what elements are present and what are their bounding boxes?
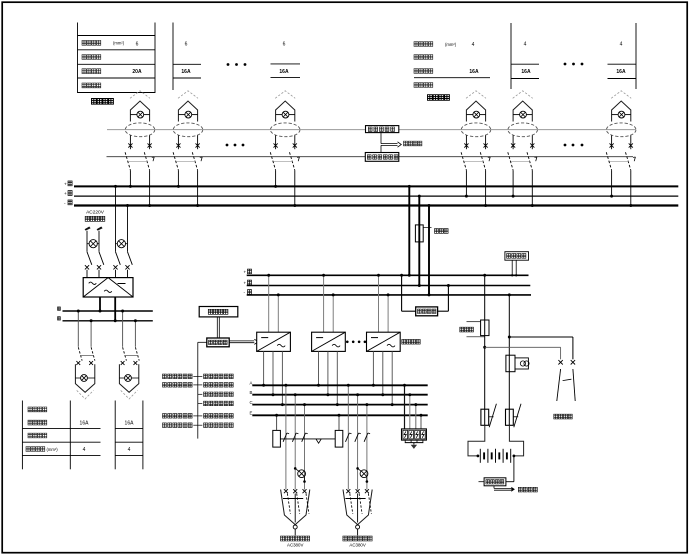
table T2 column 2 cell (511, 23, 539, 89)
wire: detector link (380, 133, 382, 153)
contact X marks generator (558, 360, 575, 364)
svg-text:20A: 20A (132, 69, 142, 75)
svg-text:16A: 16A (469, 69, 479, 75)
contact X marks inverter input (85, 265, 130, 269)
wire: AC output line 1 (58, 307, 153, 311)
feeder F7 (AC outgoing) (75, 310, 95, 399)
table T2 (right feeder group data) (414, 42, 490, 88)
svg-text:A: A (250, 381, 253, 386)
svg-text:AC220V: AC220V (86, 209, 105, 215)
contact X marks branch 2 (346, 489, 369, 493)
label: generator set (554, 414, 572, 419)
wire: trip sense line (107, 156, 634, 158)
wire: interlock sense line (gray) (107, 129, 636, 131)
svg-text:16A: 16A (181, 69, 191, 75)
wire: battery frame right (509, 425, 523, 457)
lamp HL1 (AC input) (87, 240, 99, 248)
contactor/transformer T1 neutral (273, 414, 281, 447)
feeder F3 (he-mu outgoing) (270, 91, 300, 207)
breaker QF5 generator (557, 369, 575, 401)
ellipsis dots table T2 (564, 63, 584, 66)
fuse FU2 (AC input) (97, 227, 103, 231)
bus mid (control bus) (64, 191, 678, 198)
shunt RS (battery + lead) (481, 274, 489, 426)
svg-text:E: E (250, 411, 253, 416)
box: monitor module U5 (199, 307, 238, 317)
svg-text:16A: 16A (616, 69, 626, 75)
feeder F4 (kong-mu outgoing) (461, 91, 491, 207)
bus phase A (250, 381, 428, 386)
feeder F6 (kong-mu outgoing) (606, 91, 636, 207)
box: AC surge detector (365, 153, 399, 162)
wire: AC input pair (87, 231, 99, 252)
rectifier module U3 (312, 274, 346, 406)
wire: monitor link (double) (217, 317, 219, 338)
svg-text:4: 4 (524, 41, 527, 47)
fuse FU5 with wire: control bus to DC link (415, 195, 448, 287)
wire: DC link line +M (244, 269, 529, 275)
table T1 (left feeder group data) (78, 23, 156, 94)
label: AC220V AC input (85, 209, 105, 221)
switch blades QS1-QS4 (87, 252, 132, 265)
bus phase C (250, 400, 428, 405)
wire: generator lead 1 (509, 337, 573, 359)
svg-text:6: 6 (185, 41, 188, 47)
label: shunt / CT (460, 322, 485, 337)
ellipsis dots left feeder row (226, 144, 245, 147)
rectifier module U2 (257, 274, 291, 406)
lamp HL branch 2 (356, 467, 368, 483)
arrow: sampling to rectifier (229, 339, 258, 344)
ellipsis dots table T1 (227, 63, 247, 66)
labels: sampling signals left (163, 374, 193, 427)
svg-text:+: + (244, 280, 247, 285)
signal tick marks (193, 376, 202, 425)
label: he-mu feeder group (bold) (92, 99, 114, 105)
svg-text:+: + (64, 183, 67, 188)
lamp HL2 (DC side) (116, 240, 128, 248)
label: AC input 2 (343, 536, 372, 548)
svg-text:C: C (250, 400, 253, 405)
label: kong-mu feeder group (bold) (428, 95, 450, 101)
ellipsis dots right feeder row (564, 144, 584, 147)
arrow: battery data out (494, 486, 537, 492)
feeder F1 (he-mu outgoing) (125, 91, 155, 207)
input arrow branch 1 (281, 490, 310, 536)
surge protector FV1-FV4 (402, 384, 427, 443)
arrow: data to monitor (381, 141, 422, 147)
box: transmission device U8 (505, 252, 529, 277)
inverter U1 (AC/DC transfer) (83, 278, 133, 297)
bus phase E (250, 411, 428, 416)
svg-text:+: + (64, 192, 67, 197)
svg-text:-: - (64, 202, 66, 207)
svg-text:AC380V: AC380V (349, 543, 365, 548)
table T2 column n cell (608, 23, 637, 89)
svg-text:16A: 16A (521, 69, 531, 75)
contactor/transformer T2 neutral (335, 414, 343, 447)
svg-text:(mm²): (mm²) (445, 42, 457, 47)
wire: neutral link with earth mark (280, 439, 335, 443)
wires: branch 1 phase drops (284, 384, 306, 490)
input arrow branch 2 (343, 490, 372, 536)
svg-text:B: B (250, 390, 253, 395)
label: rectifier module (402, 339, 420, 344)
svg-text:4: 4 (620, 41, 623, 47)
svg-text:6: 6 (136, 41, 139, 47)
label: AC input 1 (281, 536, 310, 548)
svg-text:(mm²): (mm²) (113, 41, 125, 46)
wire: bus +M to DC link (408, 185, 411, 277)
wire: DC link line mid (244, 280, 531, 285)
svg-text:16A: 16A (80, 421, 90, 427)
box: battery sampling U9 (479, 456, 514, 486)
svg-text:4: 4 (128, 447, 131, 453)
wire: DC link line -M (244, 290, 532, 295)
svg-text:AC380V: AC380V (287, 543, 303, 548)
ground symbol SPD (405, 443, 424, 449)
rectifier module U4 (367, 274, 401, 406)
svg-text:16A: 16A (125, 421, 135, 427)
ellipsis dots rectifier row (346, 341, 366, 344)
wire: DC tap from bus +M (114, 185, 117, 252)
feeder F8 (AC outgoing) (119, 310, 139, 399)
labels: sampling signals right (204, 374, 234, 427)
wire: AC output line 2 (58, 317, 153, 321)
battery GB cells (480, 449, 510, 463)
wire: battery frame left (468, 425, 485, 457)
lamp HL branch 1 (294, 467, 306, 483)
bus phase B (250, 390, 428, 395)
wires: branch 2 phase drops (347, 384, 369, 490)
wire: DC tap from bus -M (126, 204, 129, 252)
svg-text:4: 4 (472, 42, 475, 48)
fuse FU6 (battery +) (481, 404, 497, 427)
wire: bus -M to DC link (428, 204, 431, 296)
svg-text:4: 4 (83, 447, 86, 453)
fuse FU7 (battery -) (506, 404, 522, 427)
feeder F5 (kong-mu outgoing) (508, 91, 538, 207)
box: input sampling U6 (207, 338, 229, 347)
table T3 (AC feeder data) (22, 401, 142, 470)
breaker QF1 contacts (283, 433, 308, 442)
wire: inverter outputs (99, 297, 117, 322)
svg-text:+: + (244, 269, 247, 274)
box: voltage dropping device U7 (400, 274, 450, 316)
bus +M (closing bus) (64, 181, 678, 188)
breaker QF2 contacts (346, 433, 371, 442)
svg-text:(mm²): (mm²) (47, 447, 59, 452)
svg-text:-: - (244, 290, 246, 295)
wire: sampling signal bus (198, 342, 207, 438)
wire: generator lead 2 (sense) (485, 347, 561, 359)
meter PJ (battery - lead) (506, 293, 529, 425)
feeder F2 (he-mu outgoing) (173, 91, 203, 207)
wire: stubs into inverter (87, 270, 128, 278)
table T1 column 2 cell (173, 23, 201, 91)
bus -M (negative bus) (64, 200, 678, 207)
table T1 column n cell (271, 41, 301, 77)
box: switch-status detector (366, 126, 399, 133)
svg-text:16A: 16A (279, 69, 289, 75)
svg-text:6: 6 (283, 41, 286, 47)
contact X marks branch 1 (284, 489, 307, 493)
fuse FU1 (AC input) (85, 227, 91, 231)
